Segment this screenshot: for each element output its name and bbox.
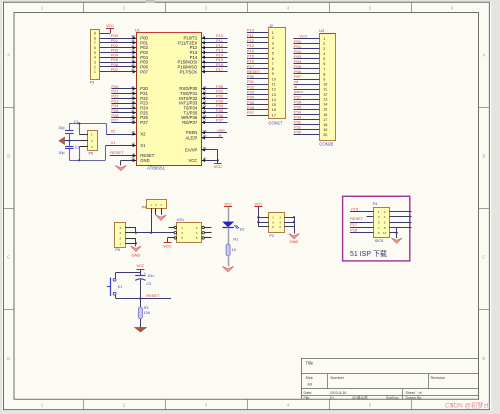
svg-text:39: 39 [131,34,135,38]
svg-text:psen: psen [218,128,226,132]
svg-text:P2: P2 [269,234,274,238]
svg-text:P37: P37 [216,118,224,123]
svg-text:13: 13 [272,93,276,97]
svg-text:VCC: VCC [254,202,262,206]
svg-text:22: 22 [131,90,135,94]
svg-text:34: 34 [131,58,135,62]
svg-text:4: 4 [279,220,281,224]
svg-text:P27: P27 [140,120,148,125]
svg-text:5: 5 [272,52,274,56]
svg-text:1: 1 [94,70,96,74]
svg-text:1: 1 [378,210,380,214]
svg-text:23: 23 [131,95,135,99]
svg-text:C3: C3 [146,282,151,286]
svg-text:+: + [144,271,146,275]
svg-text:6: 6 [272,57,274,61]
svg-text:Drawn By:: Drawn By: [406,396,423,400]
svg-text:P07: P07 [111,67,119,72]
svg-text:12: 12 [323,93,327,97]
svg-text:21: 21 [131,85,135,89]
svg-text:VCC: VCC [214,164,223,169]
svg-text:CSDN @初梦zh: CSDN @初梦zh [445,401,491,410]
svg-text:\51单片机: \51单片机 [352,395,368,400]
svg-text:5: 5 [272,225,274,229]
svg-text:D: D [482,356,485,361]
svg-text:7: 7 [378,226,380,230]
svg-text:X1: X1 [111,140,117,145]
svg-text:51 ISP 下载: 51 ISP 下载 [350,249,387,258]
svg-text:30p: 30p [59,151,65,155]
svg-text:P07: P07 [140,69,148,74]
svg-text:CON17: CON17 [269,120,284,125]
svg-text:P30: P30 [294,130,302,135]
svg-text:EA/VP: EA/VP [185,147,198,152]
svg-text:36: 36 [131,49,135,53]
svg-text:10: 10 [323,83,327,87]
svg-text:2: 2 [91,139,93,143]
svg-text:3: 3 [91,145,93,149]
svg-text:4: 4 [94,56,96,60]
svg-text:4: 4 [323,52,325,56]
svg-text:1: 1 [323,37,325,41]
svg-text:P6: P6 [115,248,120,252]
svg-text:9: 9 [272,72,274,76]
svg-text:AT89S51: AT89S51 [147,165,166,170]
svg-text:3: 3 [378,215,380,219]
svg-text:RESET: RESET [350,217,363,221]
svg-text:8: 8 [94,36,96,40]
svg-text:9: 9 [323,77,325,81]
svg-text:P15: P15 [351,208,358,212]
svg-text:38: 38 [131,39,135,43]
svg-text:5: 5 [181,236,183,240]
svg-text:14: 14 [323,103,327,107]
svg-text:6: 6 [279,225,281,229]
svg-text:5: 5 [94,51,96,55]
svg-text:3: 3 [272,41,274,45]
svg-text:R3: R3 [144,306,149,310]
svg-text:11: 11 [203,90,206,94]
svg-text:14: 14 [203,104,207,108]
svg-text:B: B [483,154,486,159]
svg-text:IDC5: IDC5 [375,239,384,243]
svg-text:10: 10 [383,231,387,235]
svg-text:11: 11 [272,83,276,87]
svg-text:GND: GND [290,239,299,244]
svg-text:4: 4 [272,47,274,51]
svg-text:9: 9 [378,231,380,235]
svg-text:P3: P3 [90,80,95,84]
svg-text:12: 12 [203,95,207,99]
svg-text:5: 5 [323,57,325,61]
svg-text:10K: 10K [144,311,151,315]
svg-text:24: 24 [131,99,135,103]
svg-text:Size: Size [306,376,313,380]
svg-text:20: 20 [323,133,327,137]
svg-text:2: 2 [196,226,198,230]
svg-text:5: 5 [378,221,380,225]
svg-text:KS1: KS1 [177,218,184,222]
svg-text:8: 8 [323,72,325,76]
svg-text:1: 1 [272,31,274,35]
svg-text:C2: C2 [75,145,80,149]
svg-text:A3: A3 [308,382,313,386]
svg-text:6: 6 [94,46,96,50]
svg-text:2: 2 [384,210,386,214]
svg-text:2: 2 [94,65,96,69]
svg-text:12: 12 [272,88,276,92]
svg-text:10: 10 [272,77,276,81]
svg-text:U3: U3 [319,29,324,33]
svg-text:2: 2 [279,216,281,220]
svg-text:18: 18 [323,123,327,127]
svg-text:15: 15 [203,109,207,113]
svg-text:7: 7 [94,41,96,45]
svg-text:11: 11 [323,88,327,92]
svg-text:X1: X1 [140,143,146,148]
svg-text:of: of [419,391,422,395]
svg-text:9: 9 [94,32,96,36]
svg-text:30p: 30p [59,126,65,130]
svg-text:X2: X2 [111,128,117,133]
svg-text:P4: P4 [142,205,147,209]
svg-text:4: 4 [196,231,198,235]
svg-text:17: 17 [323,118,327,122]
svg-text:R1: R1 [233,238,238,242]
svg-text:Title: Title [306,361,314,366]
svg-text:15: 15 [323,108,327,112]
svg-text:35: 35 [131,54,135,58]
svg-text:16: 16 [323,113,327,117]
svg-text:6: 6 [323,62,325,66]
svg-text:C1: C1 [74,120,79,124]
svg-text:P17: P17 [216,67,224,72]
svg-text:26: 26 [131,109,135,113]
svg-text:1: 1 [91,133,93,137]
svg-text:al: al [219,134,222,138]
svg-text:10: 10 [203,85,207,89]
svg-text:Revision: Revision [431,376,446,380]
svg-text:A: A [483,53,486,58]
svg-text:13: 13 [203,99,207,103]
svg-text:28: 28 [131,119,135,123]
svg-text:19: 19 [323,128,327,132]
svg-text:1: 1 [272,216,274,220]
svg-text:33: 33 [131,63,135,67]
svg-text:8: 8 [384,226,386,230]
svg-text:VCC: VCC [163,243,172,248]
svg-text:C: C [482,255,485,260]
svg-text:VCC: VCC [188,158,197,163]
svg-text:E:\: E:\ [330,396,334,400]
svg-text:25: 25 [131,104,135,108]
svg-text:RD/P37: RD/P37 [182,120,198,125]
svg-text:2012-8-16: 2012-8-16 [330,391,346,395]
svg-text:6: 6 [196,236,198,240]
svg-text:U1: U1 [135,28,140,32]
svg-text:1: 1 [181,226,183,230]
svg-text:27: 27 [131,114,135,118]
svg-text:17: 17 [203,119,207,123]
svg-text:B: B [7,154,10,159]
svg-text:P17: P17 [350,223,357,227]
svg-text:Date:: Date: [304,391,313,395]
svg-text:16: 16 [272,108,276,112]
svg-text:37: 37 [131,44,135,48]
svg-text:15: 15 [272,103,276,107]
svg-text:C: C [7,255,10,260]
svg-text:X2: X2 [140,132,146,137]
svg-text:Number: Number [331,376,345,380]
svg-text:P17/SCK: P17/SCK [180,69,198,74]
svg-text:2: 2 [323,42,325,46]
svg-text:K1: K1 [118,285,123,289]
svg-text:7: 7 [323,67,325,71]
svg-text:7: 7 [272,62,274,66]
svg-text:GND: GND [132,252,141,257]
svg-text:P37: P37 [247,110,255,115]
svg-text:4: 4 [384,215,386,219]
svg-text:RESET: RESET [146,293,160,298]
svg-text:6: 6 [384,221,386,225]
svg-text:P4: P4 [373,202,378,206]
svg-text:CON20: CON20 [319,142,334,147]
svg-text:A: A [7,53,10,58]
svg-text:J2: J2 [269,24,273,28]
svg-text:13: 13 [323,98,327,102]
svg-text:P27: P27 [111,118,119,123]
svg-text:VCC: VCC [106,24,114,28]
svg-text:File:: File: [304,396,311,400]
svg-text:D1: D1 [240,227,245,231]
svg-text:VCC: VCC [224,202,232,206]
svg-text:1K: 1K [232,248,237,252]
svg-text:10u: 10u [147,274,153,278]
svg-text:32: 32 [131,68,135,72]
svg-text:SchDoc: SchDoc [386,396,399,400]
svg-text:Sheet: Sheet [406,391,415,395]
svg-text:P5: P5 [89,152,94,156]
svg-text:3: 3 [94,61,96,65]
svg-text:3: 3 [181,231,183,235]
svg-text:17: 17 [272,113,276,117]
svg-text:8: 8 [272,67,274,71]
svg-text:ALE/P: ALE/P [185,135,197,140]
svg-text:GND: GND [140,158,149,163]
svg-text:RESET: RESET [110,150,124,155]
svg-text:VCC: VCC [137,264,145,268]
svg-text:16: 16 [203,114,207,118]
svg-text:D: D [7,356,10,361]
svg-text:3: 3 [323,47,325,51]
svg-text:3: 3 [272,220,274,224]
svg-text:2: 2 [272,36,274,40]
svg-text:P16: P16 [350,228,357,232]
svg-text:14: 14 [272,98,276,102]
